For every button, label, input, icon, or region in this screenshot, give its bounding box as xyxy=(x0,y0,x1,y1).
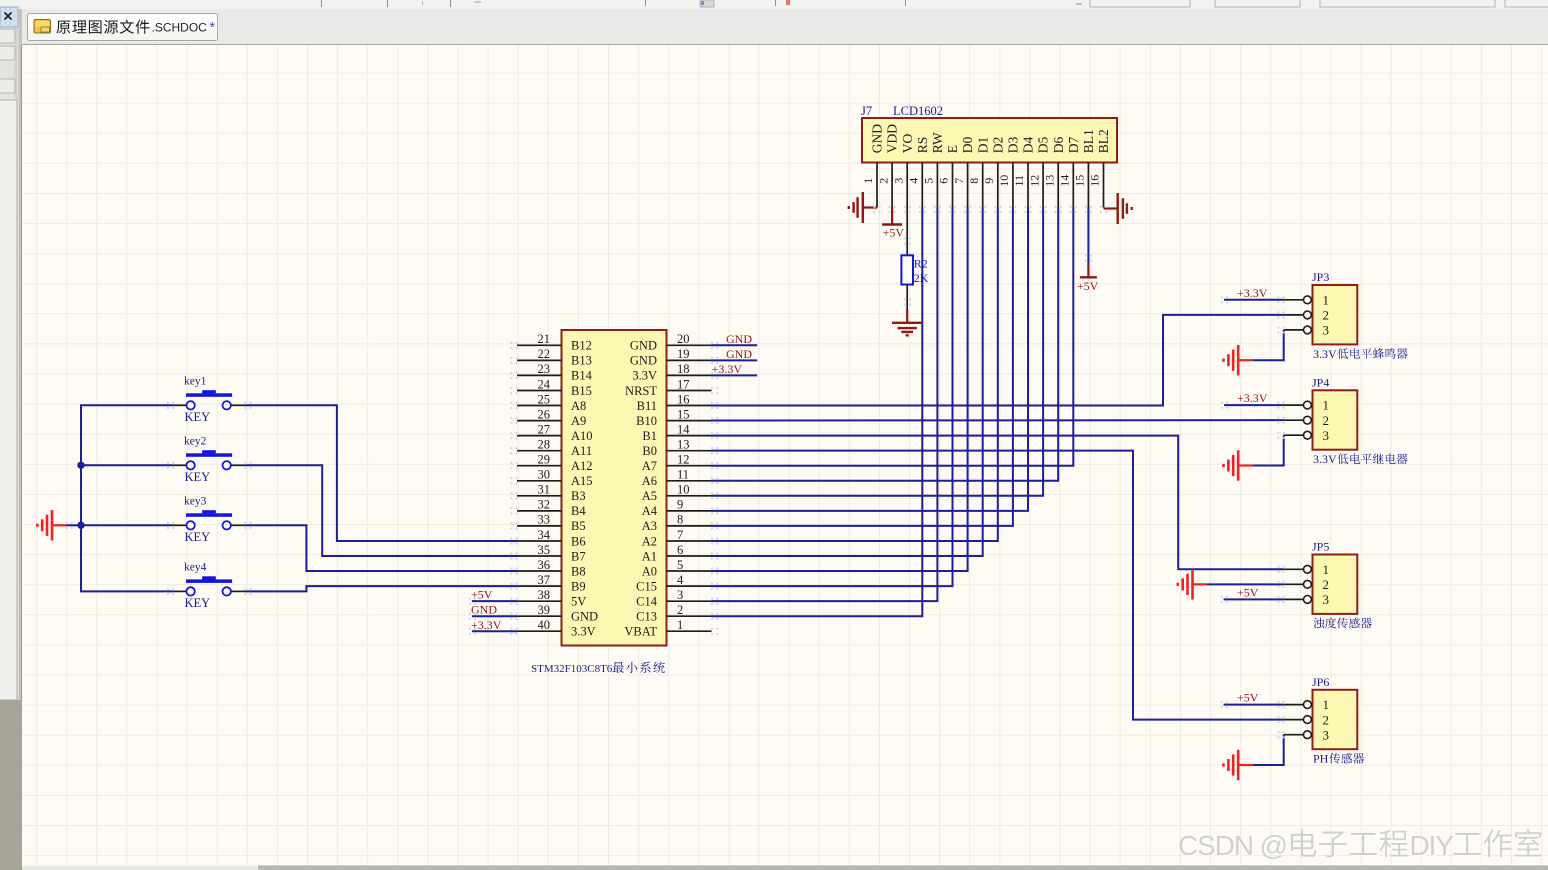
pin 2 (C13) of U1 xyxy=(636,603,711,624)
pin 1 of JP6 xyxy=(1284,697,1329,712)
pin 3 of JP6 xyxy=(1284,727,1329,742)
svg-text:6: 6 xyxy=(937,178,951,184)
left sidebar xyxy=(0,9,22,870)
wire MCU pin 6 to LCD1602 pin 8 xyxy=(712,208,983,557)
svg-text:1: 1 xyxy=(1323,292,1330,307)
pin 39 (GND) of U1 xyxy=(517,603,598,624)
wire key3 to MCU pin 36 xyxy=(246,525,517,571)
svg-text:B10: B10 xyxy=(636,414,657,428)
pin 15 (BL1) of J7 xyxy=(1073,129,1096,207)
pin 38 (5V) of U1 xyxy=(517,588,586,609)
pin 4 (C15) of U1 xyxy=(636,573,711,594)
svg-text:22: 22 xyxy=(538,347,551,361)
wire net +3.3V at MCU pin 40 xyxy=(472,630,517,632)
svg-text:D1: D1 xyxy=(975,137,990,154)
svg-text:A8: A8 xyxy=(571,399,586,413)
svg-text:+5V: +5V xyxy=(1237,691,1259,705)
svg-text:CSDN @: CSDN @ xyxy=(1178,830,1287,861)
svg-text:B9: B9 xyxy=(571,579,586,593)
ground (LCD pin 1) xyxy=(849,192,877,223)
pin 20 (GND) of U1 xyxy=(630,332,712,353)
pin 36 (B8) of U1 xyxy=(517,558,586,579)
pin 16 (BL2) of J7 xyxy=(1088,129,1111,207)
svg-text:A5: A5 xyxy=(642,489,657,503)
svg-text:A0: A0 xyxy=(642,564,657,578)
ground (JP6) xyxy=(1224,750,1253,780)
svg-text:23: 23 xyxy=(538,362,551,376)
svg-text:40: 40 xyxy=(538,618,551,632)
svg-text:3.3V: 3.3V xyxy=(1313,347,1337,361)
svg-text:B5: B5 xyxy=(571,519,586,533)
wire net +5V to JP6 pin 1 xyxy=(1224,704,1284,706)
ground (JP5) xyxy=(1178,569,1207,599)
svg-text:JP4: JP4 xyxy=(1312,375,1329,389)
pin 7 (D0) of J7 xyxy=(952,137,975,208)
svg-text:5: 5 xyxy=(677,558,683,572)
wire MCU pin 10 to LCD1602 pin 12 xyxy=(712,208,1044,496)
svg-text:+5V: +5V xyxy=(883,226,905,240)
svg-text:A15: A15 xyxy=(571,474,593,488)
wire MCU pin 7 to LCD1602 pin 9 xyxy=(712,208,998,541)
pin 4 (RS) of J7 xyxy=(907,137,930,208)
svg-text:8: 8 xyxy=(967,178,981,184)
svg-text:key1: key1 xyxy=(184,376,207,388)
wire MCU pin 14 (B1) to JP5 pin 1 xyxy=(712,436,1284,570)
pin 12 (A7) of U1 xyxy=(642,453,712,474)
svg-text:29: 29 xyxy=(538,453,551,467)
pin 1 (VBAT) of U1 xyxy=(624,618,711,639)
svg-text:*: * xyxy=(210,20,216,36)
svg-text:B4: B4 xyxy=(571,504,586,518)
svg-text:3.3V: 3.3V xyxy=(632,369,657,383)
ground (below R2, classic) xyxy=(892,310,922,335)
pin 16 (B11) of U1 xyxy=(637,392,712,413)
svg-text:B11: B11 xyxy=(637,399,657,413)
svg-text:A12: A12 xyxy=(571,459,593,473)
svg-text:4: 4 xyxy=(677,573,684,587)
wire MCU pin 11 to LCD1602 pin 13 xyxy=(712,208,1059,481)
junction key bus / key3 & ground xyxy=(77,522,84,529)
wire R2 to ground xyxy=(906,285,908,311)
pin 3 of JP4 xyxy=(1284,428,1329,443)
svg-text:JP6: JP6 xyxy=(1312,675,1329,689)
ground (LCD pin 16) xyxy=(1104,193,1132,224)
svg-text:2: 2 xyxy=(677,603,683,617)
svg-text:5V: 5V xyxy=(571,594,586,608)
power +5V (LCD pin 15) xyxy=(1080,263,1097,277)
pin 10 (A5) of U1 xyxy=(642,483,712,504)
toolbar remnant strip xyxy=(0,0,1548,9)
svg-text:B7: B7 xyxy=(571,549,586,563)
ground (JP3) xyxy=(1224,345,1253,375)
pin 14 (B1) of U1 xyxy=(642,422,711,443)
pin 11 (A6) of U1 xyxy=(642,468,712,489)
pin 30 (A15) of U1 xyxy=(517,468,593,489)
svg-text:STM32F103C8T6: STM32F103C8T6 xyxy=(531,663,613,675)
connector JP4 xyxy=(1313,390,1358,449)
svg-text:3.3V: 3.3V xyxy=(1313,452,1337,466)
svg-text:A3: A3 xyxy=(642,519,657,533)
svg-text:1: 1 xyxy=(677,618,683,632)
svg-text:C13: C13 xyxy=(636,610,657,624)
pin 13 (D6) of J7 xyxy=(1042,137,1065,208)
tab icon xyxy=(34,20,51,34)
svg-text:B1: B1 xyxy=(642,429,657,443)
svg-text:B13: B13 xyxy=(571,354,592,368)
ground (keys common) xyxy=(37,510,66,540)
svg-text:35: 35 xyxy=(538,543,551,557)
svg-text:18: 18 xyxy=(677,362,690,376)
pin 34 (B6) of U1 xyxy=(517,528,586,549)
pin 25 (A8) of U1 xyxy=(517,392,586,413)
svg-text:2: 2 xyxy=(1323,413,1330,428)
svg-text:13: 13 xyxy=(1042,175,1056,187)
svg-text:2: 2 xyxy=(876,178,890,184)
svg-text:17: 17 xyxy=(677,377,690,391)
wire JP6 pin 3 to ground xyxy=(1253,735,1284,765)
caption of JP5 xyxy=(1314,617,1372,628)
svg-text:GND: GND xyxy=(870,124,885,153)
svg-text:NRST: NRST xyxy=(625,384,657,398)
svg-text:21: 21 xyxy=(538,332,551,346)
svg-text:B12: B12 xyxy=(571,339,592,353)
svg-text:D3: D3 xyxy=(1006,137,1021,154)
pin 12 (D5) of J7 xyxy=(1027,137,1050,208)
wire net +5V to JP5 pin 3 xyxy=(1224,598,1284,600)
svg-text:BL1: BL1 xyxy=(1081,129,1096,153)
svg-text:A6: A6 xyxy=(642,474,657,488)
pin 1 (GND) of J7 xyxy=(861,124,884,208)
pin 1 of JP3 xyxy=(1284,292,1329,307)
wire MCU pin 15 (B10) to JP4 pin 2 xyxy=(712,419,1284,421)
pin 2 of JP4 xyxy=(1284,413,1329,428)
pin 5 (A0) of U1 xyxy=(642,558,712,579)
svg-text:39: 39 xyxy=(538,603,551,617)
svg-text:7: 7 xyxy=(677,528,683,542)
svg-text:B6: B6 xyxy=(571,534,586,548)
svg-text:14: 14 xyxy=(677,422,690,436)
pin 21 (B12) of U1 xyxy=(517,332,592,353)
svg-text:+5V: +5V xyxy=(1237,585,1259,599)
wire net +3.3V to JP4 pin 1 xyxy=(1224,404,1284,406)
svg-text:20: 20 xyxy=(677,332,690,346)
pin 2 of JP3 xyxy=(1284,307,1329,322)
ground (JP4) xyxy=(1224,450,1253,480)
svg-text:6: 6 xyxy=(677,543,683,557)
svg-text:9: 9 xyxy=(982,178,996,184)
svg-text:30: 30 xyxy=(538,468,551,482)
pin 27 (A10) of U1 xyxy=(517,422,593,443)
pin 3 (C14) of U1 xyxy=(636,588,711,609)
svg-text:15: 15 xyxy=(1073,175,1087,187)
svg-text:+3.3V: +3.3V xyxy=(712,362,743,376)
svg-text:GND: GND xyxy=(630,354,657,368)
wire key4 left terminal to bus xyxy=(80,590,173,592)
svg-text:1: 1 xyxy=(1323,398,1330,413)
svg-text:1: 1 xyxy=(1323,562,1330,577)
svg-text:3: 3 xyxy=(1323,428,1330,443)
svg-text:7: 7 xyxy=(952,178,966,184)
svg-text:34: 34 xyxy=(538,528,551,542)
svg-text:J7: J7 xyxy=(861,104,872,118)
svg-text:R2: R2 xyxy=(914,257,928,271)
wire key4 to MCU pin 37 xyxy=(246,586,517,591)
svg-text:A7: A7 xyxy=(642,459,657,473)
wire MCU pin 12 to LCD1602 pin 14 xyxy=(712,208,1074,466)
svg-text:36: 36 xyxy=(538,558,551,572)
svg-text:33: 33 xyxy=(538,513,551,527)
svg-text:9: 9 xyxy=(677,498,683,512)
pin 13 (B0) of U1 xyxy=(642,437,711,458)
wire MCU pin 13 (B0) to JP6 pin 2 xyxy=(712,451,1284,720)
svg-text:E: E xyxy=(945,145,960,153)
svg-text:16: 16 xyxy=(677,392,690,406)
pin 7 (A2) of U1 xyxy=(642,528,712,549)
pin 8 (D1) of J7 xyxy=(967,137,990,208)
svg-text:+3.3V: +3.3V xyxy=(1237,391,1268,405)
svg-text:C15: C15 xyxy=(636,579,657,593)
wire MCU pin 5 to LCD1602 pin 7 xyxy=(712,208,968,572)
wire MCU pin 4 to LCD1602 pin 6 xyxy=(712,208,953,587)
svg-text:12: 12 xyxy=(677,453,690,467)
svg-text:3: 3 xyxy=(1323,323,1330,338)
svg-text:A2: A2 xyxy=(642,534,657,548)
pin 40 (3.3V) of U1 xyxy=(517,618,596,639)
wire key1 left terminal to bus xyxy=(80,404,173,406)
pin 24 (B15) of U1 xyxy=(517,377,592,398)
svg-text:A9: A9 xyxy=(571,414,586,428)
svg-text:2K: 2K xyxy=(914,271,929,285)
tab bar xyxy=(0,9,1548,45)
svg-text:VO: VO xyxy=(900,134,915,154)
svg-text:25: 25 xyxy=(538,392,551,406)
wire net GND at MCU pin 20 xyxy=(712,344,758,346)
svg-text:D4: D4 xyxy=(1021,137,1036,154)
connector JP6 xyxy=(1313,690,1358,749)
svg-text:B3: B3 xyxy=(571,489,586,503)
svg-text:12: 12 xyxy=(1027,175,1041,187)
pin 15 (B10) of U1 xyxy=(636,407,711,428)
svg-text:JP3: JP3 xyxy=(1312,270,1329,284)
wire MCU pin 3 to LCD1602 pin 5 xyxy=(712,208,938,602)
pin 29 (A12) of U1 xyxy=(517,453,593,474)
svg-text:11: 11 xyxy=(677,468,689,482)
pin 5 (RW) of J7 xyxy=(922,132,945,207)
IC U1 STM32F103C8T6 xyxy=(562,330,667,646)
svg-text:PH: PH xyxy=(1313,752,1329,766)
wire key3 left terminal to bus xyxy=(80,524,173,526)
svg-text:VBAT: VBAT xyxy=(624,625,657,639)
pin 2 (VDD) of J7 xyxy=(876,124,899,208)
horizontal scrollbar xyxy=(22,866,1548,870)
pin 3 of JP3 xyxy=(1284,323,1329,338)
wire net +5V at MCU pin 38 xyxy=(472,600,517,602)
pin 22 (B13) of U1 xyxy=(517,347,592,368)
svg-text:31: 31 xyxy=(538,483,551,497)
pin 2 of JP5 xyxy=(1284,577,1329,592)
pin 19 (GND) of U1 xyxy=(630,347,712,368)
svg-text:3: 3 xyxy=(1323,727,1330,742)
resistor R2 2K xyxy=(901,255,913,284)
svg-text:38: 38 xyxy=(538,588,551,602)
wire net GND at MCU pin 39 xyxy=(472,615,517,617)
pin 2 of JP6 xyxy=(1284,712,1329,727)
svg-text:3.3V: 3.3V xyxy=(571,625,596,639)
wire net GND at MCU pin 19 xyxy=(712,359,758,361)
svg-text:KEY: KEY xyxy=(185,596,211,610)
pin 26 (A9) of U1 xyxy=(517,407,586,428)
svg-text:2: 2 xyxy=(1323,577,1330,592)
wire net +3.3V to JP3 pin 1 xyxy=(1224,299,1284,301)
svg-text:D7: D7 xyxy=(1066,137,1081,154)
wire JP5 pin 2 to ground xyxy=(1207,583,1284,585)
pin 6 (A1) of U1 xyxy=(642,543,712,564)
wire JP3 pin 3 to ground xyxy=(1253,330,1284,360)
wire LCD1602 pin 15 to +5V xyxy=(1087,208,1089,264)
pin 37 (B9) of U1 xyxy=(517,573,586,594)
pin 10 (D3) of J7 xyxy=(997,137,1020,208)
svg-text:1: 1 xyxy=(861,178,875,184)
pin 14 (D7) of J7 xyxy=(1058,137,1081,208)
svg-text:KEY: KEY xyxy=(185,530,211,544)
pin 28 (A11) of U1 xyxy=(517,437,592,458)
document tab xyxy=(28,14,218,41)
svg-text:10: 10 xyxy=(997,175,1011,187)
svg-text:16: 16 xyxy=(1088,175,1102,187)
svg-text:24: 24 xyxy=(538,377,551,391)
svg-text:.SCHDOC: .SCHDOC xyxy=(152,21,208,35)
svg-text:3: 3 xyxy=(677,588,683,602)
connector JP3 xyxy=(1313,285,1358,344)
svg-text:10: 10 xyxy=(677,483,690,497)
pin 9 (D2) of J7 xyxy=(982,137,1005,208)
connector JP5 xyxy=(1313,555,1358,614)
pin 33 (B5) of U1 xyxy=(517,513,586,534)
svg-text:D0: D0 xyxy=(960,137,975,154)
svg-text:D5: D5 xyxy=(1036,137,1051,154)
wire key1 to MCU pin 34 xyxy=(246,405,517,541)
wire MCU pin 9 to LCD1602 pin 11 xyxy=(712,208,1029,511)
wire key common bus vertical xyxy=(80,405,82,591)
svg-text:3: 3 xyxy=(891,178,905,184)
wire key2 left terminal to bus xyxy=(80,464,173,466)
svg-text:15: 15 xyxy=(677,407,690,421)
svg-text:RW: RW xyxy=(930,132,945,153)
svg-text:37: 37 xyxy=(538,573,551,587)
svg-text:GND: GND xyxy=(726,347,752,361)
wire MCU pin 16 (B11) to JP3 pin 2 xyxy=(712,315,1284,406)
pin 1 of JP5 xyxy=(1284,562,1329,577)
svg-text:5: 5 xyxy=(922,178,936,184)
svg-text:32: 32 xyxy=(538,498,551,512)
svg-text:GND: GND xyxy=(630,339,657,353)
svg-text:+3.3V: +3.3V xyxy=(471,618,502,632)
svg-text:D6: D6 xyxy=(1051,137,1066,154)
svg-text:D2: D2 xyxy=(990,137,1005,154)
wire MCU pin 2 to LCD1602 pin 4 xyxy=(712,208,923,617)
pin 18 (3.3V) of U1 xyxy=(632,362,711,383)
pin 23 (B14) of U1 xyxy=(517,362,593,383)
svg-text:1: 1 xyxy=(1323,697,1330,712)
junction key bus / key2 xyxy=(77,462,84,469)
connector J7 LCD1602 xyxy=(862,118,1117,163)
svg-text:GND: GND xyxy=(571,610,598,624)
svg-text:+5V: +5V xyxy=(1077,279,1099,293)
pin 32 (B4) of U1 xyxy=(517,498,586,519)
svg-text:key3: key3 xyxy=(184,496,207,508)
svg-text:28: 28 xyxy=(538,437,551,451)
svg-text:JP5: JP5 xyxy=(1312,540,1329,554)
svg-text:A11: A11 xyxy=(571,444,592,458)
svg-text:11: 11 xyxy=(1012,175,1026,187)
svg-text:+5V: +5V xyxy=(471,588,493,602)
pin 35 (B7) of U1 xyxy=(517,543,586,564)
svg-text:A4: A4 xyxy=(642,504,658,518)
pin 31 (B3) of U1 xyxy=(517,483,586,504)
svg-text:2: 2 xyxy=(1323,307,1330,322)
svg-text:LCD1602: LCD1602 xyxy=(893,104,943,118)
svg-text:key4: key4 xyxy=(184,562,207,574)
svg-text:3: 3 xyxy=(1323,592,1330,607)
wire net +3.3V at MCU pin 18 xyxy=(712,374,758,376)
svg-text:C14: C14 xyxy=(636,594,658,608)
pin 8 (A3) of U1 xyxy=(642,513,712,534)
tab title xyxy=(57,20,150,34)
svg-text:19: 19 xyxy=(677,347,690,361)
pin 3 (VO) of J7 xyxy=(891,134,914,208)
svg-text:B14: B14 xyxy=(571,369,593,383)
svg-text:A1: A1 xyxy=(642,549,657,563)
wire MCU pin 8 to LCD1602 pin 10 xyxy=(712,208,1013,526)
pin 11 (D4) of J7 xyxy=(1012,137,1035,208)
svg-text:KEY: KEY xyxy=(185,470,211,484)
svg-text:+3.3V: +3.3V xyxy=(1237,286,1268,300)
pin 9 (A4) of U1 xyxy=(642,498,712,519)
wire LCD pin 3 to R2 xyxy=(906,208,908,256)
wire JP4 pin 3 to ground xyxy=(1253,435,1284,465)
pin 17 (NRST) of U1 xyxy=(625,377,711,398)
svg-text:key2: key2 xyxy=(184,436,207,448)
watermark CSDN xyxy=(1178,829,1543,862)
svg-text:8: 8 xyxy=(677,513,683,527)
svg-text:DIY: DIY xyxy=(1410,830,1455,861)
svg-text:13: 13 xyxy=(677,437,690,451)
svg-text:VDD: VDD xyxy=(885,124,900,153)
svg-text:RS: RS xyxy=(915,137,930,154)
svg-text:14: 14 xyxy=(1058,175,1072,187)
power +5V (LCD pin 2) xyxy=(882,208,902,225)
svg-text:GND: GND xyxy=(726,332,752,346)
pin 3 of JP5 xyxy=(1284,592,1329,607)
wire ground to key bus xyxy=(67,524,82,526)
wire key2 to MCU pin 35 xyxy=(246,465,517,556)
svg-text:4: 4 xyxy=(907,178,921,184)
svg-text:27: 27 xyxy=(538,422,551,436)
svg-text:A10: A10 xyxy=(571,429,593,443)
pin 1 of JP4 xyxy=(1284,398,1329,413)
svg-text:B0: B0 xyxy=(642,444,657,458)
svg-text:B15: B15 xyxy=(571,384,592,398)
svg-text:26: 26 xyxy=(538,407,551,421)
svg-text:KEY: KEY xyxy=(185,410,211,424)
svg-text:BL2: BL2 xyxy=(1096,129,1111,153)
svg-text:2: 2 xyxy=(1323,712,1330,727)
pin 6 (E) of J7 xyxy=(937,145,960,207)
svg-text:B8: B8 xyxy=(571,564,586,578)
